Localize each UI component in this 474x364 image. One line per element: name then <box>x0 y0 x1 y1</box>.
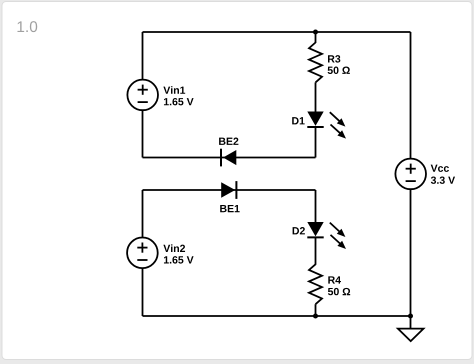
label Vin1 <box>163 86 185 94</box>
voltage source Vin2 <box>127 238 158 269</box>
label BE1 <box>220 205 239 212</box>
wire D2 to R4 <box>315 237 317 264</box>
value 3.3 V (Vcc) <box>431 176 455 183</box>
diode BE2 <box>221 149 236 167</box>
wire D1 cathode to BE2 row <box>315 127 317 158</box>
resistor R4 <box>309 264 322 304</box>
label Vin2 <box>163 244 185 252</box>
label R4 <box>328 276 341 283</box>
label D2 <box>293 227 305 234</box>
voltage source Vcc <box>395 159 426 190</box>
wire bottom horizontal <box>143 315 411 317</box>
ground symbol <box>398 329 424 342</box>
wire top horizontal <box>143 31 411 33</box>
wire Vin2 top lead <box>142 190 144 238</box>
resistor R3 <box>309 43 322 83</box>
junction node (bottom rail / ground) <box>408 314 413 319</box>
wire Vcc bottom lead to ground <box>410 189 412 328</box>
voltage source Vin1 <box>127 80 158 111</box>
junction node (R3 / top rail) <box>313 30 318 35</box>
wire BE2 row <box>143 157 316 159</box>
value 1.65 V (Vin2) <box>164 256 194 263</box>
diode BE1 <box>221 181 236 199</box>
wire Vin1 bottom lead <box>142 110 144 157</box>
wire R3 top lead <box>315 32 317 43</box>
wire Vin2 bottom lead <box>142 268 144 316</box>
wire BE1 row <box>143 189 316 191</box>
LED D1 <box>307 112 323 128</box>
value 1.65 V (Vin1) <box>164 98 194 105</box>
wire R3 to D1 <box>315 82 317 111</box>
LED D2 emission arrows <box>330 223 346 249</box>
LED D1 emission arrows <box>330 112 346 138</box>
label R3 <box>328 55 340 62</box>
label D1 <box>292 117 304 124</box>
wire R4 bottom lead <box>315 304 317 316</box>
LED D2 <box>307 222 323 237</box>
value 50 ohm (R4) <box>328 288 350 295</box>
version label 1.0 <box>17 21 37 32</box>
label Vcc <box>431 165 449 172</box>
wire Vin1 top lead <box>142 32 144 80</box>
value 50 ohm (R3) <box>328 67 350 74</box>
label BE2 <box>219 138 238 145</box>
junction node (R4 / bottom rail) <box>313 314 318 319</box>
wire Vcc top lead <box>410 32 412 159</box>
wire BE1 row to D2 <box>315 190 317 222</box>
